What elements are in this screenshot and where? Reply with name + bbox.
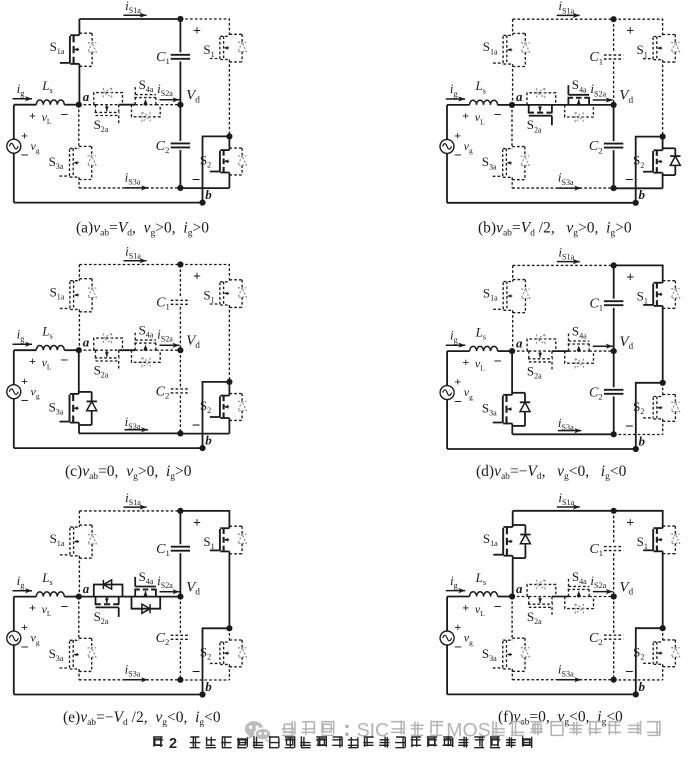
wire junction to b c [203,382,230,448]
wire top rail b [513,18,614,20]
wire bus top e [179,511,181,544]
transistor S1 d [654,282,663,284]
arrow i_S1a e [124,506,147,508]
wire inductor to a c [64,349,79,351]
diode D-S3a d [512,392,525,394]
wire S3a source a [78,177,80,188]
node a d [509,348,515,354]
diode D-S1a e [79,524,92,526]
diode D-S2a loop d [527,339,556,351]
svg-text:b: b [205,679,212,694]
svg-text:+: + [626,516,634,531]
node Vd b [611,102,617,108]
wire S1a source to node a e [78,556,80,597]
svg-text:(d)vab=−Vd, vg<0, ig<0: (d)vab=−Vd, vg<0, ig<0 [476,463,627,482]
transistor S2 e [220,641,229,643]
node bus bottom d [611,431,617,437]
transistor S3a d [503,394,512,396]
inductor L_s e [36,592,64,597]
transistor S1 a [220,35,229,37]
wire S3a source d [511,424,513,435]
arrow i_g e [13,590,33,592]
node junction S1-S2 e [226,625,232,631]
node bus bottom f [611,677,617,683]
wire i_S3a c [79,432,180,434]
wire bus top f [613,511,615,544]
wire source top e [13,597,15,632]
node bus top a [177,16,183,22]
svg-text:+: + [193,270,201,285]
wire inductor to a d [498,350,512,352]
wire middle branch a [79,104,96,106]
node Vd e [177,594,183,600]
transistor S2 d [654,396,663,398]
wire bus C1-Vd b [613,62,615,105]
diode D-S4a loop a [132,105,161,117]
wire S1a drain d [512,265,514,281]
wire bus Vd-C2 a [179,105,181,141]
wire a to S3a f [511,597,513,641]
wire source bottom d [446,399,448,449]
wire S1a source to node a b [512,64,514,105]
wire i_S3a f [512,679,613,681]
diode D-S2a loop f [527,584,556,596]
diode D-S1 c [229,279,242,281]
node a c [76,347,82,353]
transistor S2 f [654,641,663,643]
wire source top f [446,597,448,632]
wire bus Vd-C2 c [179,350,181,386]
node junction S1-S2 a [226,133,232,139]
transistor S2a c [95,350,97,357]
wire top rail d [513,264,614,266]
svg-text:+: + [462,600,469,614]
wire S1 to junction c [228,305,230,382]
diode D-S4a loop e [132,597,161,609]
wire S1 top connect b [614,19,663,36]
inductor L_s a [36,100,64,105]
source v_g b [440,139,454,153]
inductor L_s b [470,100,498,105]
inductor L_s d [470,346,498,351]
svg-text:a: a [516,581,523,596]
capacitor C1 f [604,546,623,548]
diode D-S1a d [513,279,526,281]
wire S1 to junction f [662,551,664,628]
wire input f [447,596,470,598]
wire bus top a [179,19,181,52]
node Vd f [611,593,617,599]
diode D-S1 f [663,525,676,527]
transistor S2a a [95,105,97,112]
wire bus Vd-C2 e [179,597,181,633]
source v_g c [7,385,21,399]
svg-text:+: + [29,109,36,123]
wire source bottom c [13,398,15,448]
wire S1a drain e [78,511,80,527]
wire bus C1-Vd f [613,553,615,596]
arrow i_S3a a [125,187,149,189]
diode D-S2 b [663,147,676,149]
wire source bottom e [13,645,15,695]
node b f [633,691,639,697]
wire input e [14,596,37,598]
transistor S4a a [134,98,136,105]
svg-text:+: + [462,355,469,369]
arrow i_S3a e [125,679,149,681]
wire S2 drain d [662,383,664,397]
arrow i_S3a b [558,187,582,189]
source v_g f [440,631,454,645]
wire bus top c [179,265,181,298]
diode D-S4a loop b [565,105,594,117]
diode D-S2 c [229,393,242,395]
transistor S2a f [528,597,530,604]
wire source top a [13,105,15,140]
wire bus C1-Vd d [613,308,615,351]
wire junction to b e [203,628,230,694]
node bus top e [177,508,183,514]
node b b [633,200,639,206]
arrow i_S2a c [160,344,180,346]
svg-text:−: − [625,419,634,435]
svg-text:−: − [494,354,502,369]
wire S2 source d [662,419,664,435]
arrow i_S1a c [124,260,147,262]
wire a to S3a e [78,597,80,641]
diode D-S1 a [229,33,242,35]
diode D-S1 b [663,34,676,36]
wire S2 source e [228,664,230,680]
wire S2 source c [228,418,230,434]
wire S2 drain f [662,628,664,642]
transistor S3a e [70,639,79,641]
transistor S1a f [504,526,513,528]
wire bus C2-bottom e [179,642,181,680]
arrow i_g a [13,98,33,100]
svg-text:+: + [21,620,28,634]
figure caption 图2 [153,737,163,747]
transistor S4a c [134,344,136,351]
arrow i_S1a b [557,14,580,16]
watermark icon [245,721,263,737]
capacitor C1 a [171,54,190,56]
node junction S1-S2 f [660,625,666,631]
wire S2 to bus bottom e [180,679,229,681]
wire junction to b b [636,137,663,203]
wire bus C1-Vd a [179,61,181,104]
arrow i_g b [446,98,466,100]
wire S1 to junction b [662,60,664,137]
wire S1a drain f [512,511,514,527]
capacitor C2 a [171,142,190,144]
wire source bottom b [446,153,448,203]
transistor S1a b [503,34,512,36]
wire S1a drain c [78,265,80,281]
wire S2 to bus bottom f [614,679,663,681]
node a e [76,594,82,600]
diode D-S3a b [512,146,525,148]
wire bus top d [613,265,615,298]
diode D-S2a loop a [94,93,123,105]
wire S2 source b [662,173,664,189]
svg-text:−: − [625,173,634,189]
inductor L_s f [470,592,498,597]
node bus top b [611,16,617,22]
svg-text:(e)vab=−Vd /2, vg<0, ig<0: (e)vab=−Vd /2, vg<0, ig<0 [63,709,221,728]
transistor S4a b [567,98,569,105]
diode D-S1 d [663,280,676,282]
wire bottom rail e [14,694,203,696]
transistor S2a d [528,351,530,358]
svg-text:+: + [462,109,469,123]
wire inductor to a f [498,596,512,598]
svg-text:−: − [21,640,29,655]
svg-text:+: + [193,516,201,531]
wire bus Vd-C2 f [613,597,615,633]
wire middle branch b [512,104,614,106]
node b e [199,691,205,697]
wire junction to b f [636,628,663,694]
wire S1a source to node a c [78,309,80,350]
svg-text:SIC: SIC [357,720,390,742]
node bus bottom a [177,185,183,191]
node a a [76,102,82,108]
arrow i_g d [446,344,466,346]
diode D-S1a a [79,32,92,34]
node Vd c [177,347,183,353]
svg-text:+: + [454,129,461,143]
wire S1 top connect d [614,265,663,282]
wire input c [14,349,37,351]
svg-text:−: − [494,108,502,123]
transistor S4a d [568,344,570,351]
capacitor C1 d [604,300,623,302]
wire S2 source f [662,664,664,680]
arrow i_S3a f [558,679,582,681]
source v_g e [7,631,21,645]
wire S2 drain a [228,136,230,150]
wire S3a source b [511,177,513,188]
wire i_S3a a [79,187,180,189]
svg-text:+: + [626,24,634,39]
wire middle branch d [512,350,529,352]
svg-text:−: − [454,395,462,410]
capacitor C2 f [604,634,623,636]
wire junction to b d [636,383,663,449]
node bus bottom c [177,430,183,436]
svg-text:+: + [626,270,634,285]
diode D-S3a f [512,637,525,639]
capacitor C2 b [604,143,623,145]
svg-text:a: a [83,581,90,596]
wire S1 top connect c [180,265,229,282]
wire source top d [446,351,448,386]
node b a [199,200,205,206]
svg-text:−: − [494,600,502,615]
capacitor C2 c [171,388,190,390]
node bus bottom e [177,677,183,683]
wire bus C1-Vd e [179,553,181,596]
transistor S1 f [654,527,663,529]
wire bottom rail a [14,202,203,204]
source v_g d [440,386,454,400]
wire S1a drain a [78,19,80,35]
wire S2 to bus bottom a [180,187,229,189]
transistor S4a f [568,590,570,597]
wire a to S3a b [511,105,513,149]
svg-text:−: − [21,149,29,164]
capacitor C1 c [171,299,190,301]
wire S2 to bus bottom d [614,434,663,436]
svg-text:a: a [516,89,523,104]
diode D-S2 d [663,394,676,396]
arrow i_g f [446,590,466,592]
svg-text:b: b [205,187,212,202]
watermark text [282,721,296,735]
transistor S1a c [70,280,79,282]
wire S2 source a [228,173,230,189]
capacitor C2 e [171,634,190,636]
svg-text:b: b [639,433,646,448]
wire bus Vd-C2 b [613,105,615,141]
wire S2 drain e [228,628,230,642]
node Vd a [177,102,183,108]
wire S1a drain b [512,19,514,35]
wire S2 drain b [662,137,664,151]
arrow i_S1a f [557,506,580,508]
wire top rail f [513,510,614,512]
wire S1 to junction a [228,60,230,137]
wire S2 to bus bottom b [614,187,663,189]
capacitor C1 b [604,54,623,56]
wire S1 top connect e [180,511,229,528]
node junction S1-S2 d [660,380,666,386]
wire inductor to a e [64,596,79,598]
transistor S1 b [653,36,662,38]
svg-text:+: + [454,375,461,389]
arrow i_S2a d [593,345,613,347]
wire a to S3a d [511,351,513,395]
transistor S3a c [70,393,79,395]
node b d [633,446,639,452]
transistor S1 c [220,281,229,283]
wire S1 top connect f [614,511,663,528]
wire S1 to junction d [662,306,664,383]
arrow i_S2a a [160,99,180,101]
svg-text:+: + [29,600,36,614]
svg-text:+: + [29,354,36,368]
wire i_S3a e [79,679,180,681]
wire middle branch f [512,596,529,598]
svg-text:+: + [193,24,201,39]
svg-text:−: − [192,418,201,434]
diode D-S2 e [229,639,242,641]
svg-text:(b)vab=Vd /2, vg>0, ig>0: (b)vab=Vd /2, vg>0, ig>0 [478,219,632,238]
node bus top d [611,262,617,268]
wire bus top b [613,19,615,52]
wire S1a source to node a a [78,64,80,105]
svg-text:−: − [454,149,462,164]
transistor S3a a [70,147,79,149]
node bus bottom b [611,185,617,191]
wire inductor to a b [498,104,513,106]
diode D-S2 f [663,639,676,641]
diode D-S1a b [513,32,526,34]
diode D-S3a c [79,391,92,393]
diode D-S4a loop d [565,351,594,363]
wire middle branch c [79,349,96,351]
wire inductor to a a [64,104,79,106]
wire bottom rail f [447,693,636,695]
svg-text:2: 2 [169,736,177,752]
wire bus C2-bottom a [179,150,181,188]
transistor S1a a [70,34,79,36]
wire bottom rail d [447,448,636,450]
diode D-S2a loop e [94,585,123,597]
svg-text:−: − [625,664,634,680]
transistor S2 b [653,149,662,151]
node junction S1-S2 b [660,134,666,140]
wire S1a source to node a d [512,310,514,351]
svg-text:−: − [61,600,69,615]
svg-text:+: + [21,374,28,388]
transistor S3a f [503,639,512,641]
node bus top c [177,261,183,267]
node b c [199,445,205,451]
wire bottom rail c [14,447,203,449]
svg-text:b: b [639,679,646,694]
wire middle branch e [79,596,181,598]
wire a to S3a a [78,105,80,149]
svg-text:+: + [454,620,461,634]
arrow i_S1a d [557,261,580,263]
wire bus Vd-C2 d [613,351,615,387]
svg-text:b: b [205,433,212,448]
transistor S1a d [504,281,513,283]
diode D-S4a loop c [132,350,161,362]
wire top rail e [79,510,180,512]
arrow i_S1a a [124,14,147,16]
wire i_S3a b [512,187,613,189]
wire bus C2-bottom f [613,642,615,680]
transistor S2 c [220,395,229,397]
wire S1 top connect a [180,19,229,36]
wire S3a source e [78,669,80,680]
transistor S2 a [220,149,229,151]
wire bus C1-Vd c [179,307,181,350]
diode D-S1a c [79,278,92,280]
arrow i_S2a f [593,591,613,593]
wire bus C2-bottom d [613,396,615,434]
node Vd d [611,348,617,354]
svg-text:a: a [516,335,523,350]
wire input d [447,350,470,352]
wire S2 to bus bottom c [180,433,229,435]
svg-text:−: − [61,354,69,369]
wire S1 to junction e [228,551,230,628]
wire source bottom f [446,645,448,695]
node bus top f [611,508,617,514]
diode D-S3a e [79,637,92,639]
diode D-S2 a [229,147,242,149]
wire S3a source c [78,423,80,434]
wire S2 drain c [228,382,230,396]
wire input b [447,104,470,106]
wire junction to b a [203,136,230,202]
wire S1a source to node a f [512,556,514,597]
svg-text:+: + [21,128,28,142]
